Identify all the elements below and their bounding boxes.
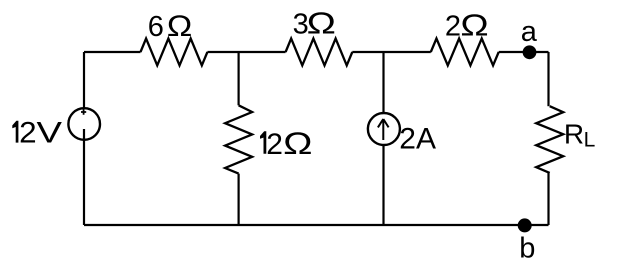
- resistor R 12ohm: [225, 105, 252, 173]
- svg-text:2: 2: [445, 11, 461, 43]
- wire 12ohm branch bottom: [238, 174, 240, 225]
- svg-text:L: L: [584, 129, 596, 152]
- svg-text:Ω: Ω: [167, 10, 192, 43]
- node a dot: [523, 45, 537, 59]
- wire top rail segment 3: [352, 51, 431, 53]
- svg-text:Ω: Ω: [283, 125, 312, 161]
- voltage source V1 12V circle: [68, 108, 100, 140]
- resistor R 2ohm: [431, 39, 499, 66]
- resistor R 6ohm: [141, 39, 208, 66]
- wire 12ohm branch top: [238, 52, 240, 105]
- wire left vertical top: [83, 52, 85, 108]
- wire 2A branch top: [382, 52, 384, 113]
- resistor R 3ohm: [286, 39, 353, 66]
- svg-text:2: 2: [266, 128, 283, 161]
- wire bottom rail: [84, 224, 549, 226]
- resistor RL load: [536, 106, 563, 173]
- wire top rail left segment: [84, 51, 141, 53]
- wire left vertical bottom with overshoot minus lead: [83, 129, 85, 225]
- label 12V digit 1: [12, 121, 18, 143]
- svg-text:2: 2: [19, 117, 37, 150]
- svg-text:6: 6: [148, 11, 164, 43]
- voltage source plus mark: [81, 109, 86, 114]
- label 12 ohm digit 1: [260, 131, 266, 154]
- svg-text:R: R: [564, 119, 584, 150]
- wire 2A branch bottom: [382, 145, 384, 225]
- svg-text:V: V: [37, 117, 63, 150]
- wire top rail segment 2: [207, 51, 285, 53]
- node b dot: [518, 218, 532, 232]
- svg-text:b: b: [519, 233, 535, 265]
- svg-text:Ω: Ω: [307, 6, 336, 41]
- svg-text:a: a: [521, 16, 538, 48]
- svg-text:2A: 2A: [399, 123, 436, 156]
- wire right vertical bottom: [547, 173, 549, 225]
- current source arrow: [378, 119, 389, 140]
- current source I1 2A circle: [368, 113, 400, 145]
- wire right vertical top: [547, 52, 549, 106]
- wire top rail right segment: [499, 51, 549, 53]
- svg-text:Ω: Ω: [460, 8, 488, 43]
